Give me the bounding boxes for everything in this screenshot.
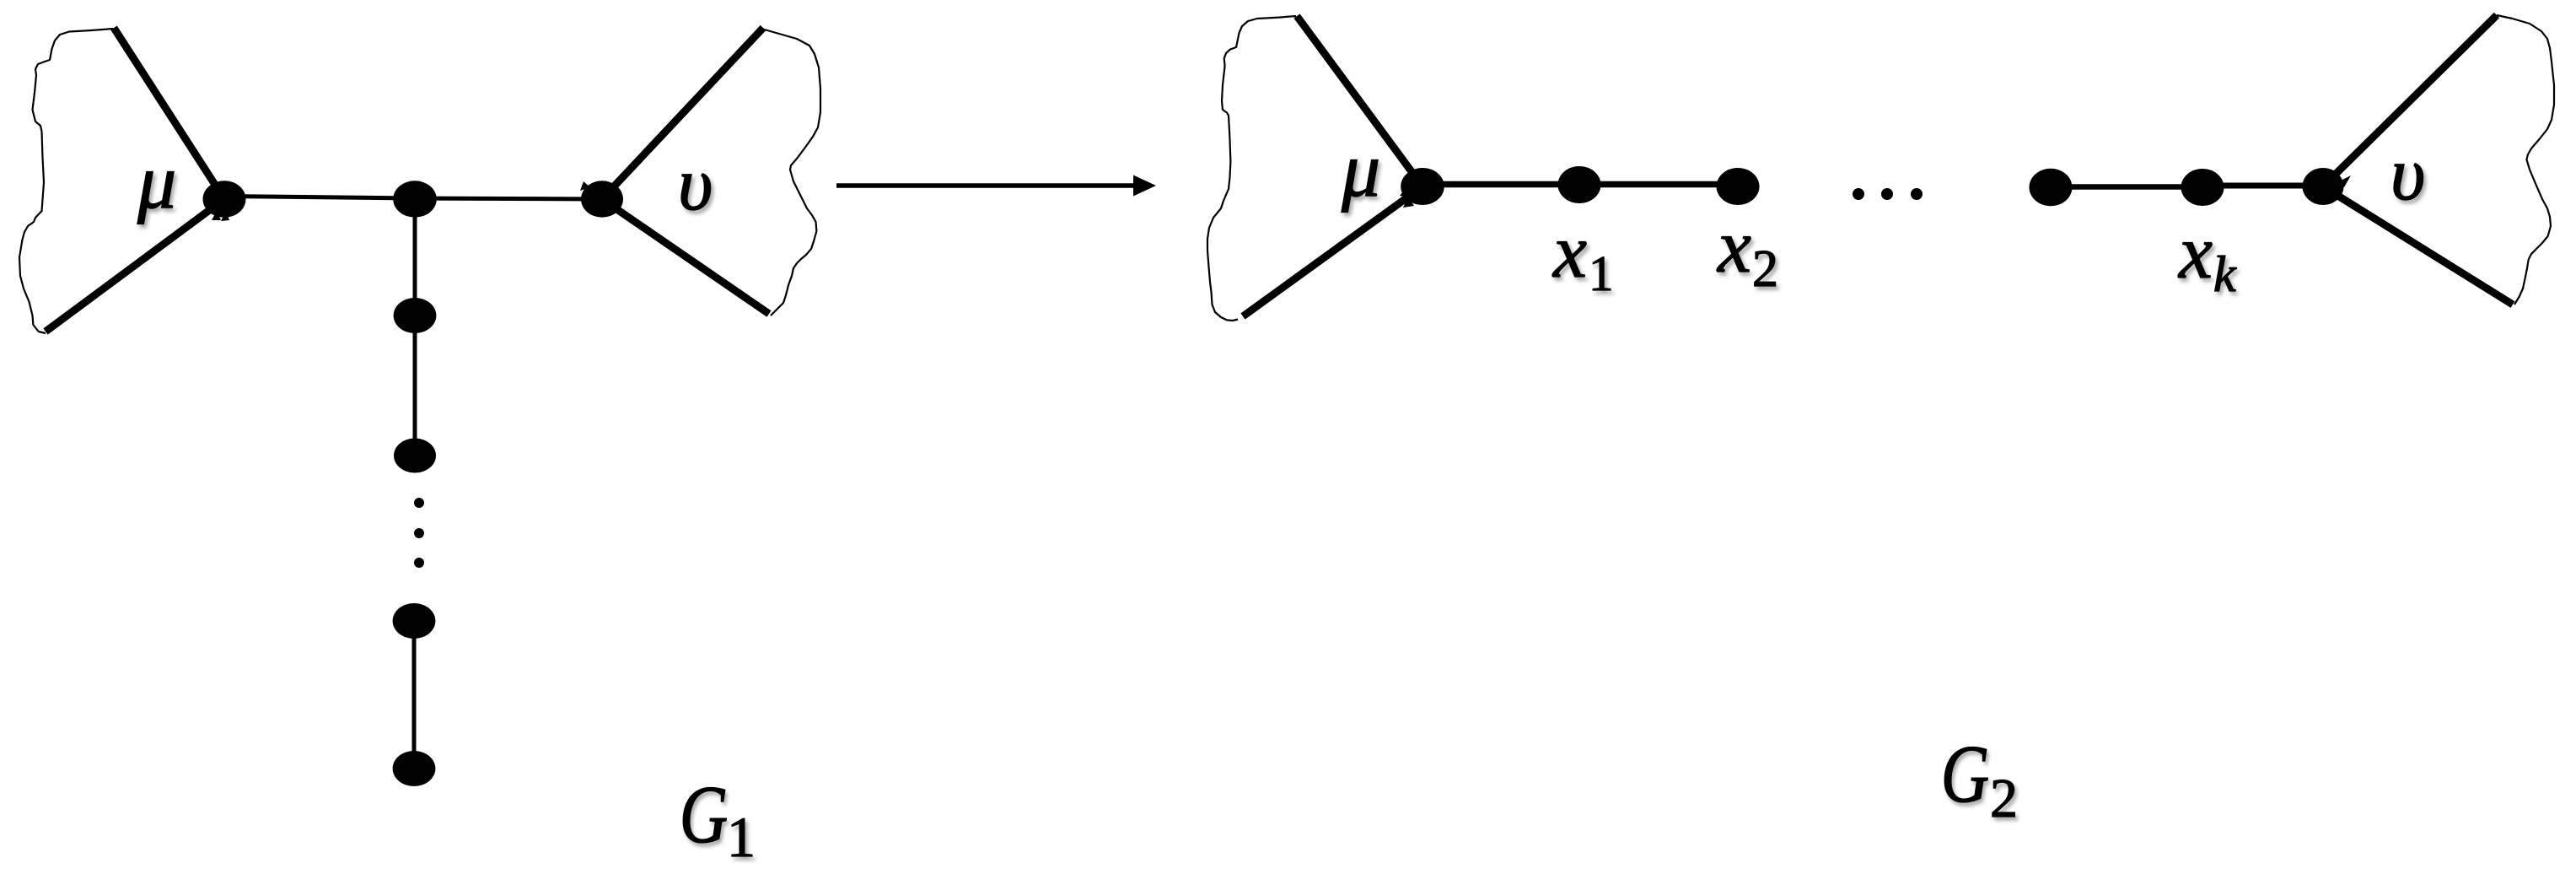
G1 right blob bottom thick edge from v [602, 199, 769, 314]
wire mu to x1 (G2) [1422, 181, 1579, 188]
arrowhead artifact left of v vertex (G1) [580, 181, 590, 191]
svg-text:2: 2 [1990, 768, 2018, 829]
svg-text:μ: μ [1341, 127, 1380, 213]
svg-text:x: x [1716, 205, 1751, 289]
arrow from G1 to G2 [836, 183, 1135, 188]
arrowhead artifact under mu vertex (G2) [1400, 187, 1414, 208]
horizontal ellipsis dot 2 (G2) [1881, 188, 1893, 200]
vertex center (G1) [393, 181, 437, 217]
G2 left blob bottom thick edge into mu [1243, 186, 1422, 316]
vertex chain 3 (G1) [393, 603, 436, 639]
G2 right blob bottom thick edge from v [2323, 186, 2513, 305]
wire node to xk (G2) [2051, 184, 2202, 190]
vertex v (G1) [581, 181, 623, 217]
vertex chain 2 (G1) [394, 439, 436, 473]
horizontal ellipsis dot 3 (G2) [1911, 188, 1923, 200]
vertex v (G2) [2303, 168, 2344, 205]
G2 left blob outline (torn region around mu) [1207, 16, 1296, 321]
vertex chain end (G1) [393, 751, 436, 786]
svg-text:x: x [1552, 210, 1587, 294]
svg-text:x: x [2177, 211, 2213, 294]
vertex mu (G1) [203, 181, 246, 218]
vertical ellipsis dot 2 (G1) [414, 528, 424, 538]
svg-text:G: G [680, 770, 728, 861]
vertex mu (G2) [1401, 168, 1444, 205]
wire x1 to x2 (G2) [1579, 181, 1738, 188]
G1 right blob top thick edge from v [602, 28, 763, 199]
vertical ellipsis dot 1 (G1) [414, 498, 424, 508]
wire xk to v (G2) [2202, 183, 2323, 189]
svg-text:k: k [2213, 246, 2237, 302]
G2 left blob top thick edge into mu [1297, 16, 1422, 186]
G2 right blob outline (torn region around v) [2497, 15, 2554, 305]
wire center vertex down chain (G1) [413, 199, 417, 456]
horizontal ellipsis dot 1 (G2) [1853, 188, 1864, 200]
vertical ellipsis dot 3 (G1) [414, 558, 424, 568]
vertex x2 (G2) [1717, 168, 1760, 205]
wire center vertex to v (G1) [415, 198, 602, 199]
svg-text:μ: μ [137, 138, 176, 224]
vertex xk (G2) [2181, 169, 2224, 206]
wire lower pendant edge (G1) [412, 621, 417, 769]
svg-text:1: 1 [727, 805, 756, 869]
G1 left blob top thick edge into mu [114, 28, 224, 199]
svg-text:2: 2 [1752, 240, 1778, 298]
G1 left blob outline (torn region around mu) [19, 29, 113, 333]
G2 right blob top thick edge from v [2323, 15, 2497, 186]
wire mu to center vertex (G1) [224, 197, 415, 199]
vertex x1 (G2) [1558, 166, 1601, 203]
svg-text:1: 1 [1589, 245, 1614, 301]
arrowhead artifact right of v vertex (G2) [2337, 175, 2351, 187]
G1 left blob bottom thick edge into mu [46, 199, 224, 332]
svg-text:υ: υ [678, 143, 713, 226]
vertex chain 1 (G1) [394, 298, 437, 333]
svg-text:υ: υ [2390, 132, 2425, 216]
G1 right blob outline (torn region around v) [761, 29, 820, 316]
arrowhead artifact under mu vertex (G1) [212, 211, 229, 221]
svg-text:G: G [1941, 730, 1989, 820]
vertex before xk (G2) [2030, 169, 2073, 206]
